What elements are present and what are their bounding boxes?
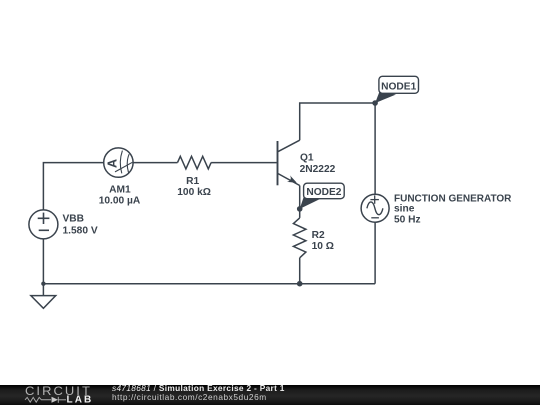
wire NODE1 to function generator top [374,103,376,194]
wire collector top rail [300,103,375,140]
node NODE1 [372,76,418,105]
wire R2 bottom to rail [299,258,301,284]
footer url text [112,393,267,401]
wire left vertical (top corner to VBB top) [43,163,103,210]
ammeter AM1 [104,148,133,177]
wire function generator bottom [374,222,376,284]
resistor R1 [178,156,212,169]
resistor R2 [293,218,306,258]
footer title text [112,384,285,392]
ground [31,296,56,309]
voltage source VBB [29,210,58,239]
function generator V1 [361,194,389,222]
footer logo CIRCUIT [25,384,92,398]
svg-text:LAB: LAB [67,395,94,405]
wire VBB bottom to ground [42,239,44,296]
footer bar [0,385,540,405]
wire NODE2 to R2 top [299,209,301,218]
junction dot bottom left [41,282,45,286]
transistor Q1 [278,140,300,185]
wire ammeter to R1 [133,162,177,164]
junction dot R2 bottom [297,281,303,287]
wire bottom rail [43,283,375,285]
wire emitter to NODE2 [299,186,301,209]
wire R1 to Q1 base [211,162,277,164]
node NODE2 [297,183,344,212]
